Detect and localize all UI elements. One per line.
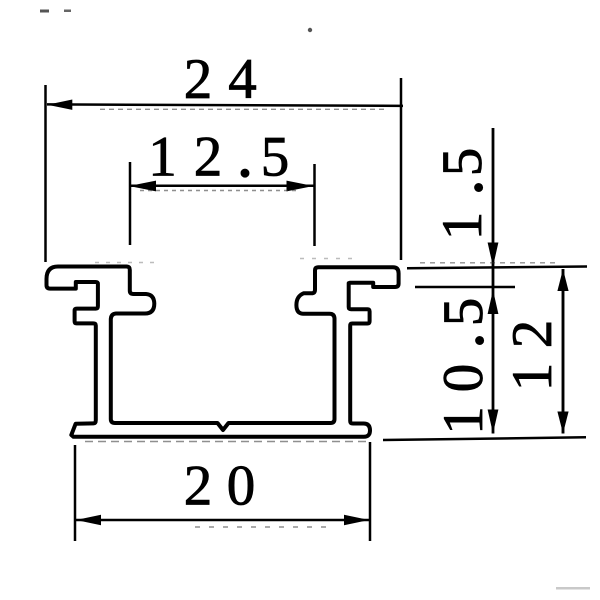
extension line at profile bottom (y=437) for 10.5 / 12 — [383, 437, 586, 440]
svg-text:1: 1 — [431, 212, 494, 241]
svg-text:0: 0 — [432, 364, 495, 393]
dimension 12.5: dimension line — [129, 185, 314, 188]
dimension 12.5: right extension line — [313, 164, 316, 246]
dimension 12.5: left arrowhead — [129, 181, 156, 192]
dimension 10.5: upward arrowhead under flange line — [488, 290, 499, 314]
dimension 20: right arrowhead — [344, 515, 369, 525]
extrusion profile cross-section outline — [47, 267, 399, 437]
dimension 20: value text "20" — [184, 455, 256, 518]
svg-text:.: . — [238, 126, 252, 189]
dimension 12: value text "12" (rotated) — [501, 320, 564, 392]
svg-text:1: 1 — [501, 363, 564, 392]
svg-text:1: 1 — [432, 406, 495, 435]
svg-text:5: 5 — [432, 298, 495, 327]
dimension 20: left extension line — [74, 445, 77, 541]
svg-text:.: . — [432, 333, 495, 347]
svg-text:4: 4 — [228, 48, 257, 111]
dimensions 1.5 / 10.5: shared vertical dimension line — [492, 128, 495, 434]
extension line at profile top (y=267) for 1.5 and 12 — [407, 267, 587, 269]
dimension 12.5: right arrowhead — [287, 181, 314, 192]
svg-text:1: 1 — [148, 126, 177, 189]
dimension 20: dimension line — [76, 519, 369, 522]
svg-text:5: 5 — [261, 126, 290, 189]
dimension 12: vertical dimension line — [562, 269, 565, 434]
dimension 1.5: value text "1.5" (rotated) — [431, 148, 494, 241]
svg-text:.: . — [431, 180, 494, 194]
svg-text:2: 2 — [194, 126, 223, 189]
dimension 24: dimension line — [47, 104, 403, 106]
scan noise dashes — [85, 109, 560, 527]
svg-text:2: 2 — [501, 320, 564, 349]
dimension 10.5: value text "10.5" (rotated) — [432, 298, 495, 435]
dimension 12: upward arrowhead at top — [557, 269, 568, 291]
dimension 20: right extension line — [369, 442, 372, 541]
dimension 12: downward arrowhead at bottom — [557, 412, 568, 434]
dimension 12.5: left extension line — [129, 162, 132, 245]
dimension 24: left extension line — [44, 85, 47, 262]
dimension 24: right extension line — [400, 78, 403, 260]
dimension 24: value text "24" — [184, 48, 257, 111]
svg-text:0: 0 — [227, 455, 256, 518]
extension line at flange underside (y=287) for 1.5 / 10.5 — [415, 286, 515, 289]
dimension 10.5: downward arrowhead at bottom line — [488, 410, 499, 434]
dimension 1.5: downward arrowhead onto top line — [488, 243, 499, 267]
svg-text:2: 2 — [184, 48, 213, 111]
svg-text:2: 2 — [184, 455, 213, 518]
dimension 12.5: value text "12.5" — [148, 126, 289, 189]
svg-text:5: 5 — [431, 148, 494, 177]
dimension 20: left arrowhead — [76, 515, 101, 525]
dimension 24: left arrowhead — [47, 100, 72, 110]
